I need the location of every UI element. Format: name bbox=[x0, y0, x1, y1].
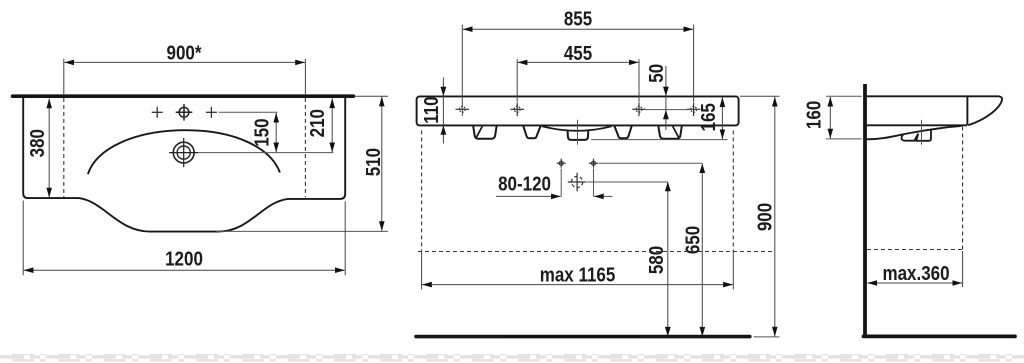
vertical centerline under bowl bbox=[577, 120, 579, 145]
dim 165 bottom reference line bbox=[591, 139, 727, 141]
svg-text:80-120: 80-120 bbox=[498, 172, 551, 195]
wall line (vertical thick) bbox=[863, 84, 867, 336]
dim 510 line with arrows bbox=[381, 97, 383, 231]
floor line (horizontal thick) bbox=[864, 334, 1016, 338]
dim 150 line with arrows bbox=[275, 113, 277, 152]
mounting tab 2 bbox=[523, 126, 540, 138]
dim 1200 line with arrows bbox=[24, 269, 345, 271]
supply row reference line to 650 bbox=[599, 162, 703, 164]
svg-text:110: 110 bbox=[420, 96, 443, 123]
dashed envelope horizontal bbox=[418, 251, 775, 253]
tab 5 inner diagonal bbox=[673, 126, 679, 137]
drain channel box bbox=[568, 131, 589, 140]
rim bottom edge bbox=[867, 124, 967, 126]
dim 900* extension lines bbox=[63, 59, 65, 94]
dim 455 line with arrows bbox=[518, 61, 639, 63]
FRONT VIEW (middle) bbox=[416, 7, 780, 337]
basin outline bbox=[23, 98, 345, 232]
dashed depth line vertical bbox=[962, 127, 964, 252]
dim 50 hole-row reference line bbox=[646, 109, 689, 111]
drain centerline bbox=[921, 120, 923, 145]
svg-text:50: 50 bbox=[645, 64, 668, 83]
mounting tab 4 bbox=[614, 126, 631, 138]
dim 510 bottom extension line bbox=[216, 230, 388, 232]
drain row reference line to 580 bbox=[587, 181, 668, 183]
dim 110 shaft bbox=[442, 78, 444, 144]
dashed depth line horizontal bbox=[867, 249, 963, 251]
svg-text:580: 580 bbox=[645, 246, 668, 274]
svg-text:150: 150 bbox=[250, 118, 273, 146]
dim 50 upper arrow (down onto slab top) bbox=[663, 87, 669, 96]
dashed fixing line left bbox=[63, 98, 65, 197]
dim 580 top arrow bbox=[665, 182, 671, 191]
mounting tab 1 (left) bbox=[473, 126, 496, 139]
dim 110 lower arrow bbox=[441, 125, 447, 134]
svg-text:650: 650 bbox=[681, 226, 704, 254]
SIDE VIEW (right) bbox=[802, 84, 1015, 336]
drain row reference line bbox=[199, 152, 334, 154]
dim max360 line with arrows bbox=[867, 282, 962, 284]
floor line (front view) bbox=[416, 335, 750, 339]
wall line (thick back edge) bbox=[13, 94, 354, 98]
svg-text:max.360: max.360 bbox=[882, 262, 949, 285]
drain pocket bbox=[901, 134, 918, 141]
svg-text:900: 900 bbox=[753, 203, 776, 231]
svg-text:210: 210 bbox=[305, 109, 328, 137]
fixing hole cross 1 bbox=[456, 106, 470, 112]
fixing hole cross 3 bbox=[632, 103, 646, 117]
inner bowl rim curve bbox=[88, 130, 280, 174]
dim 1200 extension lines bbox=[22, 201, 24, 276]
dim 900 top extension line bbox=[740, 95, 780, 97]
svg-text:510: 510 bbox=[362, 148, 385, 176]
dashed envelope left vertical bbox=[421, 131, 423, 252]
dim 160 top extension line bbox=[826, 95, 862, 97]
dim 455 extension lines bbox=[516, 59, 518, 102]
plus mark right of faucet bbox=[206, 107, 217, 118]
dim max1165 line with arrows bbox=[422, 284, 733, 286]
dashed envelope right vertical bbox=[732, 131, 734, 252]
dim 80-120 right segment with left arrow bbox=[594, 195, 613, 197]
basin profile top edge and spout beak bbox=[867, 96, 1002, 125]
svg-text:455: 455 bbox=[564, 41, 592, 64]
dim 510 top extension line bbox=[354, 95, 388, 97]
fixing hole cross 2 bbox=[510, 103, 524, 117]
tab 1 inner diagonal bbox=[476, 126, 482, 137]
svg-text:1200: 1200 bbox=[165, 247, 203, 270]
svg-text:855: 855 bbox=[564, 7, 592, 30]
dashed fixing line right bbox=[304, 98, 306, 197]
water supply symbol left bbox=[557, 159, 566, 168]
drain trap symbol bbox=[568, 173, 587, 192]
dim 50 lower arrow (up onto hole row) bbox=[663, 110, 669, 119]
svg-text:380: 380 bbox=[26, 129, 49, 157]
dim max360 extension line bbox=[962, 251, 964, 287]
dim 580 bottom arrow bbox=[665, 327, 671, 336]
svg-text:900*: 900* bbox=[167, 41, 203, 64]
dim 650 bottom arrow bbox=[699, 327, 705, 336]
svg-text:160: 160 bbox=[802, 101, 825, 129]
dim 210 line with arrows bbox=[331, 98, 333, 152]
dim 110 upper arrow bbox=[441, 87, 447, 96]
fixing hole cross 4 bbox=[687, 103, 701, 117]
plus mark left of faucet bbox=[152, 107, 163, 118]
dim 855 extension lines bbox=[461, 25, 463, 117]
mounting tab 5 (right) bbox=[658, 126, 681, 139]
dim 900 line with arrows bbox=[774, 97, 776, 337]
beak vertical divider bbox=[966, 96, 968, 125]
dim 650 line bbox=[701, 164, 703, 337]
dim 165 line with arrows bbox=[721, 97, 723, 139]
dim 580 line bbox=[667, 182, 669, 336]
faucet row reference line bbox=[219, 111, 278, 113]
dim 380 line with arrows bbox=[48, 99, 50, 198]
dim 650 top arrow bbox=[699, 164, 705, 173]
drain symbol bbox=[169, 138, 198, 167]
PLAN VIEW (top view of washbasin, left) bbox=[13, 41, 389, 275]
faucet hole symbol bbox=[176, 104, 193, 121]
dim 855 line with arrows bbox=[463, 28, 693, 30]
dim 900 bottom reference line bbox=[754, 336, 780, 338]
bottom scale strip (faint staggered ruler band) bbox=[0, 354, 1024, 361]
svg-text:max 1165: max 1165 bbox=[540, 263, 616, 286]
basin front slab outline bbox=[417, 96, 739, 125]
dim max1165 extension lines bbox=[421, 252, 423, 290]
supply drop line right bbox=[593, 169, 595, 197]
svg-text:165: 165 bbox=[696, 103, 719, 131]
dim 80-120 left segment with right arrow bbox=[496, 195, 561, 197]
bowl underside curve bbox=[867, 126, 962, 139]
dim 160 line with arrows bbox=[829, 97, 831, 139]
water supply symbol right bbox=[589, 159, 598, 168]
bowl bottom arc bbox=[542, 126, 612, 131]
dim 900* line with arrows bbox=[64, 61, 305, 63]
supply drop line left bbox=[560, 169, 562, 197]
dim 160 bottom extension line bbox=[826, 138, 862, 140]
drain outlet box bbox=[916, 130, 931, 141]
dim 50 shaft bbox=[665, 66, 667, 130]
